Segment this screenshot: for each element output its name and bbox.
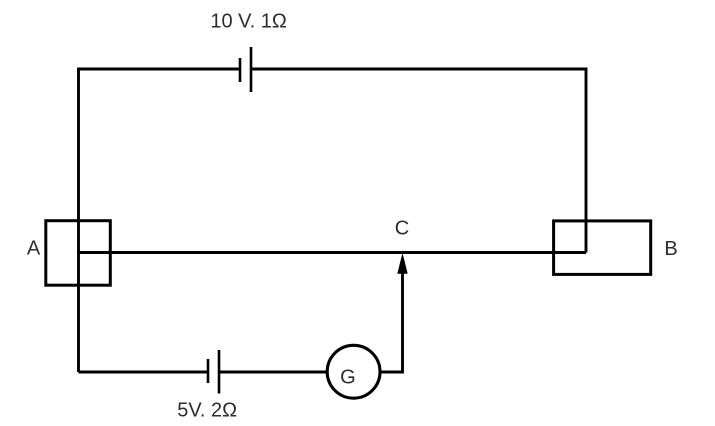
svg-text:10 V. 1Ω: 10 V. 1Ω	[210, 10, 287, 32]
svg-text:B: B	[664, 238, 677, 260]
svg-text:G: G	[340, 366, 356, 388]
svg-text:5V. 2Ω: 5V. 2Ω	[177, 400, 237, 422]
svg-text:C: C	[395, 218, 409, 240]
svg-text:A: A	[27, 238, 41, 260]
